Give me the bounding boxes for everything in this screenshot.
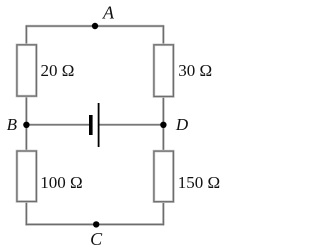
svg-text:B: B <box>7 115 18 134</box>
svg-text:150 Ω: 150 Ω <box>178 173 220 192</box>
svg-text:20 Ω: 20 Ω <box>41 61 75 80</box>
svg-text:C: C <box>90 229 103 249</box>
svg-text:100 Ω: 100 Ω <box>40 173 82 192</box>
svg-text:30 Ω: 30 Ω <box>178 61 212 80</box>
svg-text:D: D <box>175 115 189 134</box>
svg-text:A: A <box>102 3 115 23</box>
